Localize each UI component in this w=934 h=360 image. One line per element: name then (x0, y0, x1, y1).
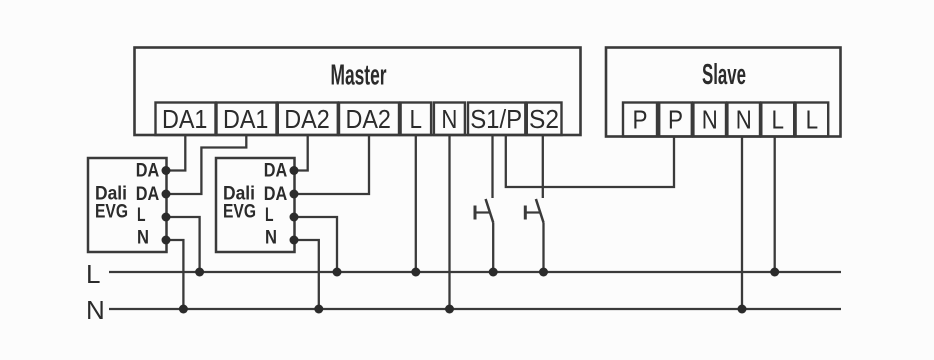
junction EVG1 DA#2 (162, 190, 171, 199)
terminal L (slave pin 5) (761, 103, 794, 137)
terminal P (slave pin 1) (623, 103, 657, 137)
terminal S1/P (master) (468, 103, 525, 136)
wire master S2 terminal to switch S2 (542, 135, 544, 198)
svg-text:L: L (806, 105, 819, 135)
svg-text:N: N (86, 295, 105, 325)
terminal P (slave pin 2) (659, 103, 692, 137)
pin DA (EVG1 pin 1) (136, 161, 160, 182)
junction L rail / EVG1 L (195, 268, 204, 277)
junction N rail / master N (445, 305, 454, 314)
svg-text:DA: DA (136, 161, 160, 182)
svg-text:L: L (137, 205, 146, 226)
svg-text:L: L (86, 259, 100, 289)
wire EVG2 L pin to L rail (294, 217, 337, 272)
label Master (331, 60, 387, 92)
svg-text:P: P (633, 105, 648, 135)
label L (mains) (86, 259, 100, 289)
wire EVG1 N pin to N rail (166, 240, 183, 309)
svg-text:DA2: DA2 (284, 104, 330, 134)
junction N rail / EVG2 N (314, 305, 323, 314)
terminal N (slave pin 4) (727, 103, 760, 137)
terminal L (slave pin 6) (796, 103, 829, 137)
wire master L terminal to L rail (415, 135, 417, 272)
svg-text:L: L (410, 104, 423, 134)
pin L (EVG1 pin 3) (137, 205, 146, 226)
svg-text:DA: DA (264, 161, 288, 182)
junction EVG1 L (162, 213, 171, 222)
wire master S1/P terminal to slave P#2 (506, 135, 674, 187)
label Slave (702, 59, 746, 91)
junction L rail / EVG2 L (333, 268, 342, 277)
terminal S2 (master) (527, 103, 562, 136)
wire master DA1#2 to EVG1 DA#2 (166, 135, 246, 194)
junction L rail / master L (411, 268, 420, 277)
svg-text:N: N (137, 228, 149, 249)
svg-text:DA: DA (264, 184, 288, 205)
junction EVG1 N (162, 236, 171, 245)
junction L rail / slave L (770, 268, 779, 277)
svg-text:N: N (441, 104, 457, 134)
svg-text:P: P (668, 105, 683, 135)
svg-text:L: L (771, 105, 784, 135)
junction EVG2 N (290, 236, 299, 245)
ballast EVG2 (Dali EVG) box (216, 158, 295, 252)
svg-text:L: L (265, 205, 274, 226)
terminal N (master) (434, 103, 465, 136)
wire master N terminal to N rail (448, 135, 450, 309)
svg-text:EVG: EVG (95, 202, 128, 223)
svg-text:S1/P: S1/P (470, 104, 522, 134)
wire EVG1 L pin to L rail (166, 217, 200, 272)
switch S2 (push-button, normally open) (525, 199, 543, 223)
junction EVG1 DA#1 (162, 166, 171, 175)
junction EVG2 DA#2 (290, 190, 299, 199)
junction EVG2 DA#1 (290, 166, 299, 175)
junction N rail / EVG1 N (179, 305, 188, 314)
terminal DA2 (master pin 4) (339, 103, 399, 136)
svg-text:EVG: EVG (223, 202, 256, 223)
junction L rail / switch S1 (489, 268, 498, 277)
wire master DA2#2 to EVG2 DA#2 (294, 135, 369, 194)
terminal DA2 (master pin 3) (278, 103, 338, 136)
svg-text:Slave: Slave (702, 59, 746, 91)
wire master DA2#1 to EVG2 DA#1 (294, 135, 308, 171)
terminal N (slave pin 3) (693, 103, 726, 137)
svg-text:DA1: DA1 (162, 104, 208, 134)
wire master S1/P terminal to switch S1 (491, 135, 493, 198)
pin DA (EVG1 pin 2) (136, 184, 160, 205)
switch S1 (push-button, normally open) (475, 199, 493, 223)
svg-text:S2: S2 (529, 104, 559, 134)
svg-text:DA2: DA2 (345, 104, 391, 134)
svg-text:DA: DA (136, 184, 160, 205)
slave device box U2 (606, 48, 841, 137)
pin N (EVG1 pin 4) (137, 228, 149, 249)
wire switch S1 to L rail (492, 223, 494, 273)
label Dali EVG (EVG1) (95, 184, 128, 223)
wire master DA1#1 to EVG1 DA#1 (166, 135, 185, 171)
label Dali EVG (EVG2) (223, 184, 256, 223)
wire switch S2 to L rail (542, 223, 544, 273)
pin DA (EVG2 pin 2) (264, 184, 288, 205)
master device box U1 (135, 48, 581, 136)
terminal DA1 (master pin 2) (217, 103, 277, 136)
pin L (EVG2 pin 3) (265, 205, 274, 226)
junction EVG2 L (290, 213, 299, 222)
svg-text:Master: Master (331, 60, 387, 92)
pin N (EVG2 pin 4) (265, 228, 277, 249)
wire EVG2 N pin to N rail (294, 240, 319, 309)
wire slave L#1 to L rail (774, 137, 776, 273)
svg-text:N: N (265, 228, 277, 249)
svg-text:DA1: DA1 (223, 104, 269, 134)
label N (mains) (86, 295, 105, 325)
terminal L (master) (401, 103, 432, 136)
node L rail (109, 271, 841, 273)
svg-text:N: N (736, 105, 752, 135)
junction L rail / switch S2 (539, 268, 548, 277)
node N rail (109, 308, 841, 310)
wire slave N#2 to N rail (741, 137, 743, 310)
terminal DA1 (master pin 1) (156, 103, 216, 136)
pin DA (EVG2 pin 1) (264, 161, 288, 182)
junction N rail / slave N (738, 305, 747, 314)
ballast EVG1 (Dali EVG) box (88, 158, 167, 252)
svg-text:N: N (702, 105, 718, 135)
